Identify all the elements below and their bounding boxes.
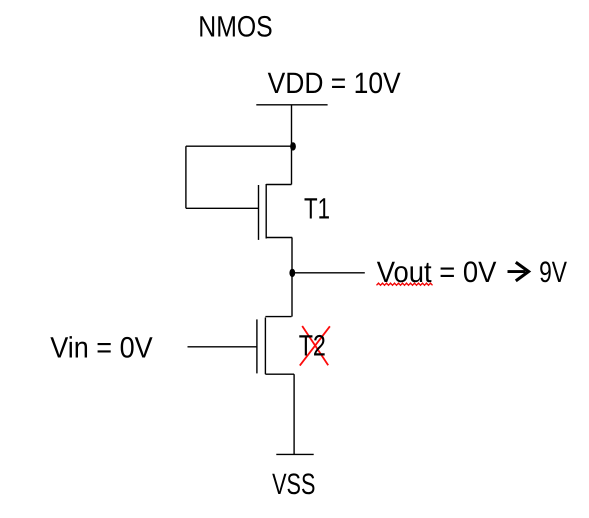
svg-text:VSS: VSS xyxy=(272,468,315,501)
svg-text:Vout = 0V: Vout = 0V xyxy=(377,256,497,289)
svg-text:Vin = 0V: Vin = 0V xyxy=(50,332,153,365)
svg-text:VDD = 10V: VDD = 10V xyxy=(268,67,401,100)
svg-text:9V: 9V xyxy=(539,256,567,289)
svg-text:NMOS: NMOS xyxy=(198,11,272,44)
svg-text:T1: T1 xyxy=(304,192,330,225)
svg-text:T2: T2 xyxy=(299,330,326,363)
